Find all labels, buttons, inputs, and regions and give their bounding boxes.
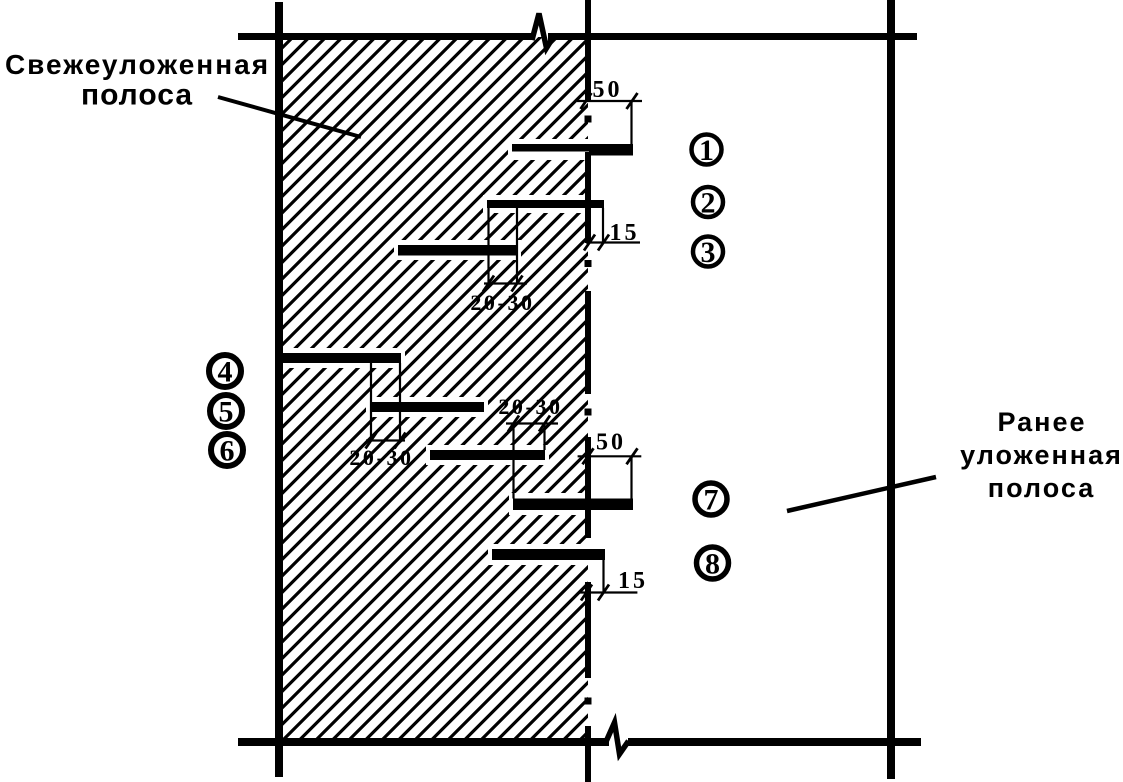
white halo around tie bar 2: [483, 195, 608, 213]
svg-text:Свежеуложенная: Свежеуложенная: [5, 49, 270, 80]
callout circle 8: [697, 547, 729, 579]
svg-text:полоса: полоса: [988, 473, 1095, 503]
joint line dot 4: [585, 698, 592, 705]
joint line dot 3: [585, 409, 592, 416]
svg-text:уложенная: уложенная: [960, 440, 1123, 470]
dimension 20-30 middle (bars 6/7): lines: [506, 416, 558, 499]
top border line (left of break): [238, 33, 533, 40]
svg-text:15: 15: [618, 568, 648, 594]
bottom border line (left of break): [238, 738, 609, 746]
tick marks 50 top: [581, 93, 638, 109]
leader line for old strip label: [787, 477, 936, 511]
joint line segment E: [585, 582, 591, 678]
svg-text:1: 1: [699, 134, 714, 167]
white halo around tie bar 8: [488, 544, 609, 565]
extension line: [602, 560, 604, 593]
tie bar 2: [487, 200, 604, 208]
extension lines: [371, 363, 400, 441]
white halo around tie bar 3: [394, 240, 521, 260]
callout circle 1: [692, 135, 722, 165]
svg-text:5: 5: [219, 396, 234, 429]
extension lines: [489, 208, 518, 285]
extension line at x=603: [602, 208, 604, 243]
callout circle 4: [209, 355, 241, 387]
tie bar 1 (left thin part): [512, 144, 589, 152]
tie bar 7: [513, 499, 633, 511]
dimension 15 top: lines: [584, 208, 640, 251]
hatched area: fresh strip: [283, 37, 588, 741]
dimension 15 bottom: lines: [580, 560, 638, 601]
joint line segment F: [585, 726, 591, 782]
svg-text:7: 7: [704, 484, 719, 517]
dim line 15 top: [586, 241, 640, 243]
ticks: [366, 433, 406, 449]
svg-text:2: 2: [701, 187, 716, 220]
svg-text:20-30: 20-30: [470, 290, 534, 315]
joint line segment D: [585, 437, 591, 538]
extension line: [630, 456, 632, 498]
dim line: [506, 422, 558, 424]
tie bar 1 (right thick part): [589, 144, 633, 156]
white halo around tie bar 5: [366, 397, 488, 417]
svg-text:полоса: полоса: [81, 79, 193, 112]
bottom border line (right of break): [628, 738, 921, 746]
left border line: [275, 2, 283, 777]
svg-text:50: 50: [593, 77, 623, 103]
tie bar 8: [492, 549, 605, 560]
break symbol top: [532, 14, 553, 49]
svg-text:15: 15: [610, 220, 640, 246]
joint line segment C: [585, 291, 591, 394]
dim line: [484, 282, 527, 284]
ticks: [483, 276, 523, 292]
white halo around tie bar 4: [272, 348, 405, 368]
tick marks 15 top: [584, 235, 609, 251]
svg-text:20-30: 20-30: [498, 394, 562, 419]
tie bar 6: [430, 450, 545, 460]
leader line for fresh strip label: [218, 97, 361, 137]
dimension 50 top: lines: [577, 93, 642, 144]
dim line: [366, 439, 405, 441]
joint line segment B: [585, 152, 591, 243]
tie bar 4: [276, 353, 401, 363]
dimension 50 bottom: lines: [578, 448, 642, 498]
svg-text:6: 6: [220, 435, 235, 468]
white halo around tie bar 1: [508, 139, 637, 160]
ticks: [508, 416, 550, 432]
joint line segment A: [585, 0, 591, 101]
svg-text:4: 4: [218, 356, 233, 389]
ticks: [581, 585, 609, 601]
dim line: [580, 591, 638, 593]
white halo around tie bar 6: [426, 445, 549, 465]
white halo around tie bar 7: [509, 493, 637, 515]
svg-text:3: 3: [701, 236, 716, 269]
svg-text:20-30: 20-30: [349, 445, 413, 470]
extension line at x=631.5 top: [630, 101, 632, 144]
ticks: [583, 448, 638, 464]
tie bar 5: [370, 402, 484, 412]
break symbol bottom: [605, 723, 629, 755]
svg-text:Ранее: Ранее: [997, 407, 1086, 437]
joint line dot 1: [585, 116, 592, 123]
svg-text:50: 50: [596, 430, 626, 456]
callout circle 5: [210, 395, 242, 427]
right border line: [887, 0, 895, 779]
dimension 20-30 upper (bars 2/3): lines: [483, 208, 527, 292]
callout circle 6: [211, 434, 243, 466]
callout circle 2: [693, 187, 723, 217]
top border line (right of break): [548, 33, 917, 40]
svg-text:8: 8: [705, 548, 720, 581]
dim line 50 top: [577, 100, 642, 102]
joint line dot 2: [585, 260, 592, 267]
callout circle 7: [695, 483, 727, 515]
callout circle 3: [693, 237, 723, 267]
dim line: [578, 455, 642, 457]
dimension 20-30 lower (bars 4/5): lines: [366, 363, 406, 449]
tie bar 3: [398, 245, 517, 256]
extension lines: [514, 424, 545, 499]
